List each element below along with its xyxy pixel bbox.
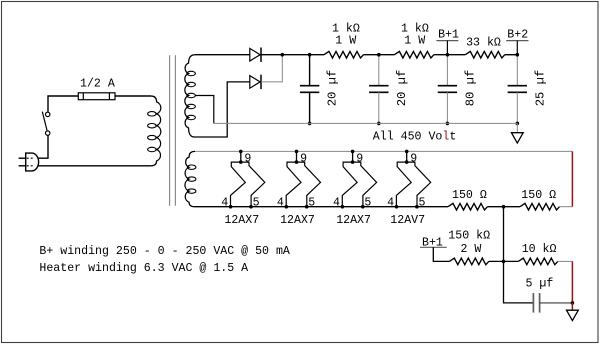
svg-text:B+2: B+2 [507,29,528,42]
svg-text:5: 5 [308,196,315,209]
wire B+1 stub [433,247,449,261]
wire plug to switch [38,135,48,158]
wire R5 to red riser [560,206,573,208]
svg-text:2 W: 2 W [461,243,482,256]
svg-text:B+ winding 250 - 0 - 250 VAC @: B+ winding 250 - 0 - 250 VAC @ 50 mA [39,245,290,258]
tube V4 12AV7 heater [406,151,408,162]
capacitor C5 5 µf [532,293,534,313]
svg-text:9: 9 [410,153,417,166]
svg-text:9: 9 [356,153,363,166]
node ground junction [571,301,575,305]
resistor R7 10 kΩ [518,258,558,265]
svg-text:80 µf: 80 µf [463,70,477,107]
heater bottom rail wire [195,206,449,208]
svg-text:150 Ω: 150 Ω [452,189,487,202]
svg-text:25 µf: 25 µf [533,70,547,107]
tube V1 12AX7 heater [240,151,242,162]
wire center node down [503,207,505,262]
wire R2 to B+1 node [434,54,465,56]
svg-text:12AV7: 12AV7 [390,214,425,227]
svg-text:12AX7: 12AX7 [280,214,315,227]
wire R1 to C2 [364,54,395,56]
transformer T1 B+ secondary winding [185,55,195,137]
wire primary bottom to plug [38,165,151,167]
resistor R3 33 kΩ [465,51,505,58]
transformer T1 heater winding [185,151,195,206]
svg-text:12AX7: 12AX7 [224,214,259,227]
svg-text:20 µf: 20 µf [395,70,409,107]
svg-text:5: 5 [253,196,260,209]
resistor R2 1 kΩ 1 W [394,51,434,58]
wire R4 to center node [488,206,521,208]
ground at bias network [567,310,579,320]
tube V2 12AX7 heater [296,151,298,162]
svg-text:4: 4 [221,196,228,209]
bottom filter rail wire [214,122,518,124]
wire diode D2 output riser [261,55,282,82]
transformer T1 core [169,55,171,206]
capacitor C1 20 µf [309,55,311,86]
node diode junction [281,53,285,57]
svg-text:All 450 Volt: All 450 Volt [373,130,457,143]
wire heater right side (red) [571,151,573,206]
svg-text:150 kΩ: 150 kΩ [448,230,490,243]
resistor R1 1 kΩ 1 W [324,51,364,58]
diode D1 [250,48,260,61]
center tap wire [195,96,213,124]
fuse F1 1/2 A [78,93,115,100]
top rail wire [195,54,250,56]
svg-text:12AX7: 12AX7 [336,214,371,227]
svg-text:5: 5 [419,196,426,209]
ground at filter [516,123,518,132]
wire switch to fuse [48,96,78,112]
plug P1 [26,153,39,171]
tube V3 12AX7 heater [352,151,354,162]
svg-text:9: 9 [244,153,251,166]
svg-text:10 kΩ: 10 kΩ [522,243,557,256]
svg-text:1 W: 1 W [335,34,356,47]
node B+1 (lower) [420,246,447,248]
resistor R6 150 kΩ 2 W [449,258,489,265]
capacitor C2 20 µf [378,55,380,86]
wire R6 to node [489,260,519,262]
svg-text:33 kΩ: 33 kΩ [466,37,501,50]
svg-text:B+1: B+1 [438,29,459,42]
node B+2 [506,40,528,42]
svg-text:4: 4 [277,196,284,209]
svg-text:4: 4 [333,196,340,209]
svg-text:1/2 A: 1/2 A [80,78,115,91]
capacitor C3 80 µf [446,55,448,86]
transformer T1 primary winding [151,96,161,166]
wire fuse to primary [115,95,151,97]
node divider junction [502,260,506,264]
node heater center tap [502,205,506,209]
wire red riser right (red) [571,261,573,303]
wire divider node down and right [504,261,534,303]
svg-text:20 µf: 20 µf [326,70,340,107]
resistor R4 150 Ω [448,203,488,210]
svg-text:B+1: B+1 [422,237,443,250]
svg-text:5 µf: 5 µf [526,277,554,290]
switch S1 [46,131,50,135]
svg-text:1 W: 1 W [404,34,425,47]
wire R7 to red riser [558,260,573,262]
svg-text:4: 4 [387,196,394,209]
svg-text:150 Ω: 150 Ω [521,189,556,202]
svg-text:5: 5 [364,196,371,209]
svg-text:9: 9 [300,153,307,166]
heater top rail wire [195,150,572,152]
svg-text:Heater winding 6.3 VAC @ 1.5 A: Heater winding 6.3 VAC @ 1.5 A [39,262,248,275]
wire ground stub (red) [571,303,573,310]
diode D2 [250,76,260,89]
capacitor C4 25 µf [516,55,518,86]
wire R3 to B+2 node [505,54,518,56]
resistor R5 150 Ω [520,203,560,210]
wire C5 to ground node [540,302,573,304]
node B+1 [436,40,458,42]
wire secondary bottom to diode D2 riser [195,82,250,137]
